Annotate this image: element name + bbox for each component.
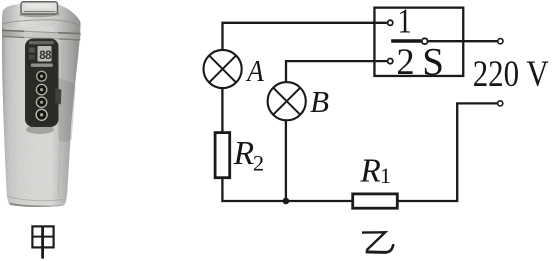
switch contact 2 [388,59,393,64]
terminal (bottom) [498,101,503,106]
svg-text:88: 88 [39,50,52,62]
label R1 [359,152,391,189]
wire: lamp B top to switch contact 2 [286,61,387,83]
terminal (top) [498,39,503,44]
svg-text:B: B [310,84,329,119]
svg-text:R: R [359,152,380,189]
wire: pivot to top terminal [428,40,497,42]
switch S box [374,8,463,76]
svg-text:220 V: 220 V [473,54,549,95]
photo: bottom shade [7,196,64,207]
photo: electric heating cup (甲), body [2,4,81,207]
photo: cup right edge band [66,20,81,205]
svg-text:2: 2 [396,41,414,82]
wire: R2 to bottom-left corner and along bottom to R1 [222,178,352,201]
wire: top horizontal from lamp A to switch contact 1 [223,23,387,50]
label 甲 (caption, drawn strokes) [32,226,53,258]
label 乙 (caption, drawn strokes) [362,232,393,252]
label R2 [233,135,265,176]
switch blade [391,39,421,43]
switch pivot [422,38,428,44]
svg-text:1: 1 [397,2,412,41]
photo: cup right mid shading patch [59,78,76,142]
switch contact 1 [388,20,393,25]
photo: cup lid dome [2,5,81,27]
wire: bottom terminal down-left to R1 [398,103,497,201]
photo: control panel [25,39,59,128]
photo: lid flip tab [19,2,60,17]
svg-text:S: S [422,40,444,83]
photo: panel buttons [36,71,47,120]
photo: side clip [55,88,62,105]
resistor R2 [215,133,230,178]
wire: lamp A to R2 [221,88,223,133]
photo: shadow under control panel [26,125,54,134]
wire: lamp B bottom to junction [285,120,287,201]
svg-text:R: R [233,135,254,172]
resistor R1 [353,194,398,208]
photo: lid seam band [2,30,81,41]
svg-text:1: 1 [380,163,391,188]
photo: front face seam line [58,42,63,198]
junction node (dot) [283,198,290,205]
lamp B [268,82,306,120]
lamp A [204,50,242,88]
svg-text:A: A [246,53,265,88]
svg-text:2: 2 [253,151,264,176]
